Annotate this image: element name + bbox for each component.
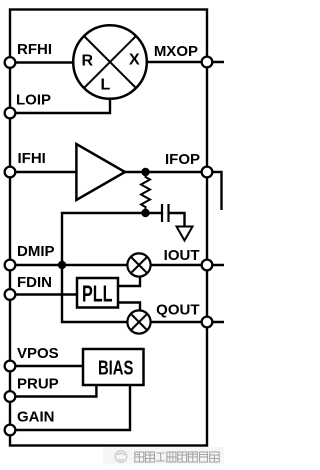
svg-text:PLL: PLL: [82, 281, 113, 307]
mixer U3 Q demodulator circle: [127, 310, 150, 333]
terminal IOUT: [202, 260, 213, 271]
svg-text:RFHI: RFHI: [17, 41, 52, 58]
mixer U3 cross diagonal 1: [131, 314, 147, 330]
wire DMIP input to I mixer: [10, 264, 128, 266]
chip boundary box: [10, 10, 207, 446]
wire RFHI input: [10, 61, 74, 63]
junction node IFOP resistor top: [141, 168, 149, 176]
mixer U2 cross diagonal 2: [131, 257, 147, 273]
svg-text:IFHI: IFHI: [18, 150, 46, 167]
wire PLL to I mixer LO: [118, 277, 140, 286]
watermark text 射频工程师的日常 (drawn glyph blocks): [135, 452, 219, 462]
mixer U1 cross diagonal 2: [84, 36, 136, 88]
BIAS block box: [83, 349, 144, 385]
terminal RFHI: [5, 57, 16, 68]
wire QOUT output: [151, 321, 224, 323]
terminal IFOP: [202, 167, 213, 178]
wire DMIP branch down to Q mixer: [62, 265, 128, 322]
svg-text:LOIP: LOIP: [16, 92, 51, 109]
wire VPOS input to BIAS: [10, 365, 83, 367]
svg-text:FDIN: FDIN: [17, 274, 52, 291]
svg-text:VPOS: VPOS: [17, 345, 59, 362]
svg-text:IOUT: IOUT: [164, 247, 200, 264]
mixer U1 RF mixer circle: [73, 25, 147, 99]
resistor R1 load: [141, 172, 150, 213]
wire FDIN input to PLL: [10, 293, 77, 295]
wire PLL to Q mixer LO: [118, 303, 140, 311]
mixer U2 I demodulator circle: [127, 253, 150, 276]
op-amp A1 IF amplifier triangle: [76, 144, 125, 200]
svg-text:DMIP: DMIP: [17, 243, 55, 260]
terminal MXOP: [202, 57, 213, 68]
mixer U1 cross diagonal 1: [84, 36, 136, 88]
wire LOIP input: [10, 99, 110, 114]
wire IFHI input: [10, 171, 76, 173]
terminal GAIN: [5, 425, 16, 436]
wire MXOP output: [147, 61, 225, 63]
wire feedback from resistor to DMIP node: [62, 213, 146, 265]
wire IOUT output: [151, 264, 224, 266]
terminal FDIN: [5, 289, 16, 300]
wire IFOP output: [125, 171, 207, 173]
svg-text:L: L: [101, 77, 111, 94]
svg-text:R: R: [82, 53, 94, 70]
terminal PRUP: [5, 391, 16, 402]
mixer U3 cross diagonal 2: [131, 314, 147, 330]
wire PRUP input to BIAS: [10, 385, 96, 397]
svg-text:QOUT: QOUT: [156, 302, 199, 319]
terminal VPOS: [5, 361, 16, 372]
svg-text:PRUP: PRUP: [17, 376, 59, 393]
terminal DMIP: [5, 260, 16, 271]
wire IFOP external stub: [207, 172, 222, 210]
PLL block box: [77, 278, 118, 308]
wire junction to capacitor: [146, 212, 163, 214]
watermark strip background: [103, 447, 224, 465]
wire capacitor to ground: [169, 213, 185, 227]
mixer U2 cross diagonal 1: [131, 257, 147, 273]
watermark logo: [115, 451, 127, 463]
terminal LOIP: [5, 108, 16, 119]
svg-text:GAIN: GAIN: [17, 409, 55, 426]
svg-text:BIAS: BIAS: [98, 357, 134, 380]
junction node DMIP feedback: [58, 261, 66, 269]
capacitor C1 left plate: [161, 204, 163, 222]
capacitor C1 right plate: [167, 204, 169, 222]
wire GAIN input to BIAS: [10, 385, 130, 430]
svg-text:MXOP: MXOP: [154, 43, 198, 60]
junction node resistor bottom: [141, 209, 149, 217]
ground symbol triangle: [177, 227, 193, 241]
svg-text:X: X: [129, 52, 140, 69]
terminal IFHI: [5, 167, 16, 178]
terminal QOUT: [202, 317, 213, 328]
svg-text:IFOP: IFOP: [165, 151, 200, 168]
